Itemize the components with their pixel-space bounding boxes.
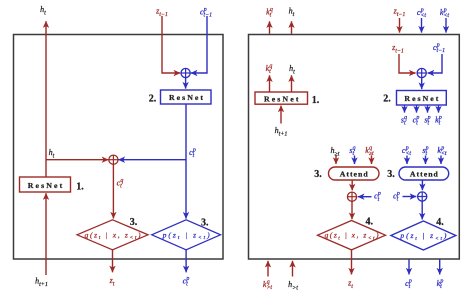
wire plus to p diamond (right) [421, 201, 423, 219]
q diamond (right) [318, 221, 386, 250]
plus node blue bottom (right) [418, 192, 427, 201]
wire h_t up from ResNet 1 to top (left) [45, 21, 47, 177]
svg-text:3.: 3. [130, 217, 138, 228]
wire k^q_t output through top edge (right) [269, 21, 271, 34]
right panel frame [249, 35, 460, 260]
plus node red (left) [109, 155, 118, 164]
wire h_t output through top edge (right) [291, 21, 293, 34]
wire s^p_t output of ResNet 2 [427, 105, 429, 113]
wire c^p_t output bottom (right) [408, 260, 410, 275]
wire plus to q diamond (right) [351, 201, 353, 219]
wire c^p_{<t} into blue Attend [406, 156, 408, 165]
svg-text:3.: 3. [387, 169, 395, 180]
wire k^p_{<t} input through top edge (right) [445, 18, 447, 33]
wire c^q_t from plus node to q diamond (left) [112, 164, 114, 218]
plus node red (right) [347, 192, 356, 201]
wire k^q_{>t} input bottom (right) [267, 261, 269, 277]
wire c^p_t output of ResNet 2 [416, 105, 418, 113]
svg-text:Attend: Attend [340, 170, 369, 179]
plus node blue (left) [181, 68, 190, 77]
svg-text:2.: 2. [383, 93, 391, 104]
svg-text:4.: 4. [436, 217, 444, 228]
wire plus node to ResNet 2 (left) [185, 78, 187, 89]
wire h_t from ResNet 1 (right) [291, 75, 293, 92]
wire c^p_{t-1} into plus node (right) [428, 54, 442, 73]
svg-text:Attend: Attend [410, 170, 439, 179]
wire k^p_t output bottom (right) [439, 260, 441, 275]
p diamond (left) [152, 220, 221, 250]
wire c^p_t into plus node red [358, 196, 372, 198]
left panel frame [14, 35, 224, 260]
p diamond (right) [391, 221, 456, 250]
wire s^q_t into red Attend [354, 156, 356, 165]
svg-text:3.: 3. [314, 169, 322, 180]
wire c^p_{<t} input through top edge (right) [421, 18, 423, 33]
wire h_{t+1} into ResNet 1 (left) [45, 193, 47, 275]
wire z_{t-1} input through top edge (right) [399, 18, 401, 33]
wire Attend to plus node red [351, 180, 353, 190]
q diamond (left) [77, 220, 148, 250]
wire k^p_t output of ResNet 2 [438, 105, 440, 113]
svg-text:1.: 1. [312, 95, 320, 106]
wire c^p_t from ResNet 2 to p diamond (left) [185, 104, 187, 219]
wire c^p_{t-1} input to plus node 2 (left) [191, 16, 207, 73]
svg-text:1.: 1. [76, 182, 84, 193]
wire Attend to plus node blue [421, 180, 423, 190]
ResNet 2 box (right) [397, 91, 447, 106]
wire z_t output (left) [112, 250, 114, 272]
svg-text:2.: 2. [149, 94, 157, 105]
wire k^q_t from ResNet 1 (right) [269, 75, 271, 92]
wire h_{>=t} into red Attend [335, 156, 337, 165]
wire h_{t+1} into ResNet 1 (right) [280, 106, 282, 124]
wire h_{>t} input bottom (right) [292, 261, 294, 277]
wire z_{t-1} into plus node (right) [399, 54, 416, 73]
svg-text:4.: 4. [366, 216, 374, 227]
svg-text:3.: 3. [201, 217, 209, 228]
wire h_t branch into plus node (left) [46, 159, 108, 161]
wire z_t output (right) [351, 250, 353, 275]
ResNet 1 box (left) [20, 177, 71, 192]
wire z_{t-1} input to plus node 2 (left) [162, 16, 180, 73]
Attend box blue [399, 167, 449, 180]
wire k^p_{<t} into blue Attend [440, 156, 442, 165]
wire plus node to ResNet 2 (right) [421, 78, 423, 90]
ResNet 2 box (left) [161, 90, 212, 104]
wire s^q_t output of ResNet 2 [404, 105, 406, 113]
plus node blue top (right) [417, 68, 426, 77]
wire c^p_t output (left) [185, 250, 187, 272]
wire c^p_t into plus node blue [403, 196, 417, 198]
wire s^p_t into blue Attend [425, 156, 427, 165]
Attend box red [329, 167, 380, 180]
wire c^p_t branch into plus node (left) [118, 159, 186, 161]
ResNet 1 box (right) [255, 92, 308, 104]
wire k^q_{>=t} into red Attend [371, 156, 373, 165]
